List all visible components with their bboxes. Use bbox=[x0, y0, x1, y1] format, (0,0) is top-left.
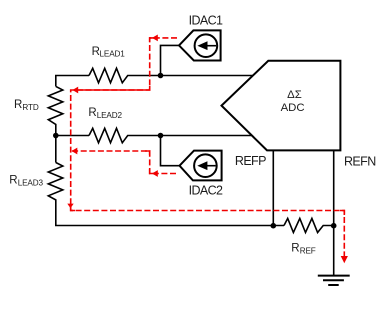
svg-text:LEAD3: LEAD3 bbox=[18, 179, 44, 188]
svg-text:REF: REF bbox=[300, 246, 316, 255]
svg-text:ADC: ADC bbox=[281, 102, 305, 114]
svg-text:LEAD2: LEAD2 bbox=[97, 111, 123, 120]
svg-text:ΔΣ: ΔΣ bbox=[287, 89, 302, 101]
svg-text:R: R bbox=[88, 107, 96, 119]
svg-text:IDAC1: IDAC1 bbox=[189, 14, 223, 28]
svg-text:IDAC2: IDAC2 bbox=[189, 184, 223, 198]
svg-text:LEAD1: LEAD1 bbox=[100, 50, 126, 59]
svg-text:R: R bbox=[14, 99, 22, 111]
svg-text:REFN: REFN bbox=[344, 155, 376, 169]
svg-text:RTD: RTD bbox=[22, 103, 38, 112]
svg-text:R: R bbox=[9, 175, 17, 187]
svg-text:R: R bbox=[291, 242, 299, 254]
svg-text:REFP: REFP bbox=[235, 154, 266, 168]
